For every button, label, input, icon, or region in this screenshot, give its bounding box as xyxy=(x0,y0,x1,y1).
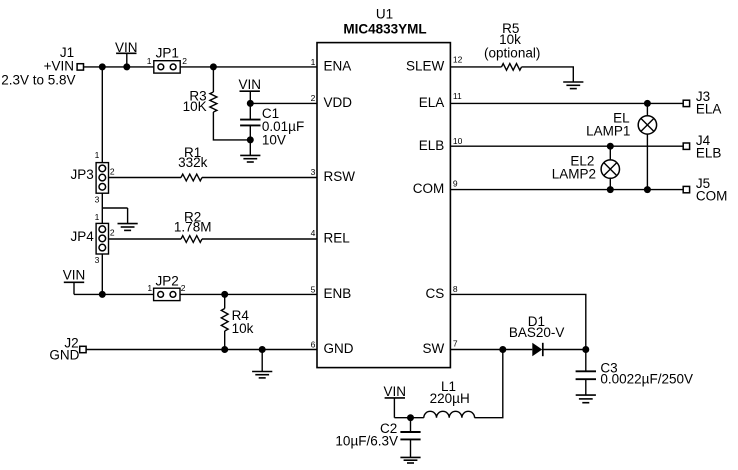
svg-text:3: 3 xyxy=(311,167,316,177)
svg-text:MIC4833YML: MIC4833YML xyxy=(343,21,426,36)
svg-text:ENB: ENB xyxy=(324,286,352,301)
wire C3 to ground xyxy=(585,379,587,395)
node junction dot R3 tap on ENA net xyxy=(210,63,217,70)
wire JP3 pin3 to ground tee and JP4 pin1 xyxy=(102,193,127,223)
wire C2 node down to capacitor xyxy=(410,418,412,432)
node junction dot R4 tap on ENB net xyxy=(221,291,228,298)
wire U1 pin8 CS over to C3 node xyxy=(450,294,585,349)
svg-text:CS: CS xyxy=(426,286,445,301)
U1 pin numbers right xyxy=(453,55,463,349)
wire U1 pin11 ELA to J3 xyxy=(450,102,682,104)
svg-text:SLEW: SLEW xyxy=(406,59,445,74)
node junction dot JP4-ENB xyxy=(99,291,106,298)
svg-text:RSW: RSW xyxy=(324,169,356,184)
JP4 pin numbers xyxy=(95,212,115,265)
svg-text:220µH: 220µH xyxy=(430,391,470,406)
ground under C3 xyxy=(576,395,596,403)
svg-text:1: 1 xyxy=(95,212,100,222)
svg-text:COM: COM xyxy=(413,181,445,196)
resistor R3 xyxy=(183,88,217,114)
ground for R5 xyxy=(563,82,583,89)
svg-text:+VIN: +VIN xyxy=(44,59,74,74)
ground under C2 xyxy=(400,457,420,463)
svg-text:JP4: JP4 xyxy=(71,229,95,244)
VIN power flag at L1 input xyxy=(384,384,407,418)
svg-text:3: 3 xyxy=(95,255,100,265)
svg-text:ELB: ELB xyxy=(419,138,445,153)
wire JP1 to U1 pin1 ENA xyxy=(180,66,317,68)
lamp EL2 LAMP2 xyxy=(552,153,620,181)
U1 pin names right xyxy=(406,59,445,357)
JP3 pin numbers xyxy=(95,150,115,204)
connector J1 +VIN terminal xyxy=(1,45,83,87)
svg-text:1: 1 xyxy=(147,283,152,293)
svg-text:6: 6 xyxy=(311,339,316,349)
wire lamp2 vertical ELB to COM xyxy=(609,146,611,189)
svg-text:5: 5 xyxy=(311,284,316,294)
jumper JP2 xyxy=(154,274,180,301)
U1 pin names left xyxy=(324,59,356,357)
node junction dot at x102 on ENA net xyxy=(99,63,106,70)
wire JP3 pin2 to R1 xyxy=(109,177,181,179)
svg-text:2: 2 xyxy=(181,283,186,293)
svg-text:VIN: VIN xyxy=(384,384,407,399)
connector J5 COM terminal xyxy=(683,176,727,204)
capacitor C1 xyxy=(240,106,304,147)
node junction dot C1-R3 ground wire xyxy=(247,136,254,143)
VIN power flag above VDD xyxy=(238,77,261,104)
wire U1 pin7 SW to diode xyxy=(450,349,532,351)
svg-text:10: 10 xyxy=(453,136,463,146)
svg-text:7: 7 xyxy=(453,339,458,349)
wire R4 bottom to GND net xyxy=(224,331,226,350)
svg-text:2: 2 xyxy=(110,228,115,238)
wire ENA dot down to R3 xyxy=(212,67,214,92)
svg-text:10µF/6.3V: 10µF/6.3V xyxy=(335,433,398,448)
svg-text:8: 8 xyxy=(453,284,458,294)
connector J2 GND terminal xyxy=(49,336,86,363)
wire C3 node down to capacitor xyxy=(585,350,587,372)
node junction dot lamp1-COM xyxy=(644,186,651,193)
node junction dot D1-C3-CS xyxy=(582,346,589,353)
wire U1 pin9 COM to J5 xyxy=(450,189,682,191)
node junction dot ground tap on GND net xyxy=(259,346,266,353)
svg-text:VIN: VIN xyxy=(238,77,261,92)
wire C1 to ground node xyxy=(249,125,251,155)
svg-text:U1: U1 xyxy=(376,7,393,22)
svg-text:ELA: ELA xyxy=(696,102,722,117)
wire J1 to JP1 (ENA net) xyxy=(84,66,154,68)
wire R2 to U1 pin4 REL xyxy=(202,238,317,240)
wire C2 to ground xyxy=(410,439,412,457)
connector J3 ELA terminal xyxy=(683,89,721,117)
svg-text:10V: 10V xyxy=(262,132,286,147)
wire J2 to U1 pin6 GND xyxy=(87,349,318,351)
svg-text:ELA: ELA xyxy=(419,95,445,110)
wire ENB dot down to R4 xyxy=(224,294,226,308)
U1 pin numbers left xyxy=(311,57,316,349)
svg-text:BAS20-V: BAS20-V xyxy=(509,325,565,340)
svg-text:COM: COM xyxy=(696,189,728,204)
wire JP2 to U1 pin5 ENB xyxy=(180,293,317,295)
node junction dot lamp2-COM xyxy=(607,186,614,193)
ground under C1 xyxy=(240,155,260,162)
ground near JP3 pin3 xyxy=(118,224,138,231)
svg-text:11: 11 xyxy=(453,91,462,101)
svg-text:2: 2 xyxy=(182,56,187,66)
node junction dot VDD net xyxy=(247,100,254,107)
VIN power flag left of ENB net xyxy=(63,268,86,295)
JP2 pin numbers xyxy=(147,283,185,293)
wire R3 bottom to C1 bottom node xyxy=(213,112,250,140)
jumper JP4 xyxy=(71,223,109,254)
svg-text:(optional): (optional) xyxy=(484,46,540,61)
svg-text:GND: GND xyxy=(324,341,354,356)
wire U1 pin12 SLEW to R5 xyxy=(450,66,501,68)
svg-text:1.78M: 1.78M xyxy=(174,219,212,234)
node junction dot lamp2 on ELB xyxy=(607,143,614,150)
node junction dot lamp1 on ELA xyxy=(644,100,651,107)
svg-text:LAMP2: LAMP2 xyxy=(552,167,596,182)
svg-text:4: 4 xyxy=(311,228,316,238)
svg-text:2: 2 xyxy=(110,167,115,177)
node junction dot SW-L1 xyxy=(499,346,506,353)
svg-text:ELB: ELB xyxy=(696,145,722,160)
capacitor C2 xyxy=(335,421,420,448)
svg-text:332k: 332k xyxy=(178,155,208,170)
svg-text:1: 1 xyxy=(147,56,152,66)
resistor R4 xyxy=(221,308,253,336)
svg-text:ENA: ENA xyxy=(324,59,352,74)
node junction dot C2 tap xyxy=(407,414,414,421)
wire diode cathode to C3 node xyxy=(543,349,586,351)
inductor L1 xyxy=(424,379,475,418)
svg-text:SW: SW xyxy=(423,341,445,356)
resistor R1 xyxy=(178,145,208,181)
wire JP4 pin3 down to ENB net xyxy=(101,254,103,294)
wire VIN to JP2 (ENB net) xyxy=(74,293,154,295)
svg-text:12: 12 xyxy=(453,55,463,65)
svg-text:2: 2 xyxy=(311,93,316,103)
resistor R2 xyxy=(174,210,212,243)
svg-text:JP2: JP2 xyxy=(155,274,178,289)
wire GND net down to ground xyxy=(261,350,263,372)
svg-text:REL: REL xyxy=(324,231,351,246)
resistor R5 xyxy=(484,21,540,70)
svg-text:GND: GND xyxy=(49,348,79,363)
svg-text:1: 1 xyxy=(311,57,316,67)
wire U1 pin10 ELB to J4 xyxy=(450,145,682,147)
svg-text:VIN: VIN xyxy=(63,268,86,283)
svg-text:10k: 10k xyxy=(232,321,254,336)
wire L1 to VIN stub xyxy=(394,417,423,419)
svg-text:1: 1 xyxy=(95,150,100,160)
jumper JP3 xyxy=(71,163,109,194)
svg-text:2.3V to 5.8V: 2.3V to 5.8V xyxy=(1,72,75,87)
svg-text:9: 9 xyxy=(453,179,458,189)
svg-text:JP3: JP3 xyxy=(71,167,94,182)
svg-text:3: 3 xyxy=(95,194,100,204)
svg-text:VDD: VDD xyxy=(324,95,353,110)
connector J4 ELB terminal xyxy=(683,133,721,161)
wire VDD dot to U1 pin2 VDD xyxy=(250,102,317,104)
wire lamp1 vertical ELA to COM xyxy=(646,103,648,189)
capacitor C3 xyxy=(576,360,693,386)
JP1 pin numbers xyxy=(147,56,188,66)
op-amp U1 MIC4833YML IC body xyxy=(317,7,450,368)
jumper JP1 xyxy=(154,46,180,73)
lamp EL LAMP1 xyxy=(586,111,656,139)
wire SW dot down to L1 xyxy=(475,350,503,418)
diode D1 BAS20-V xyxy=(509,314,565,356)
node junction dot VIN flag on ENA net xyxy=(123,63,130,70)
wire JP4 pin2 to R2 xyxy=(109,238,181,240)
svg-text:0.0022µF/250V: 0.0022µF/250V xyxy=(600,371,693,386)
node junction dot R4-GND xyxy=(221,346,228,353)
svg-text:LAMP1: LAMP1 xyxy=(586,123,630,138)
wire VDD dot down to C1 xyxy=(249,103,251,119)
svg-text:JP1: JP1 xyxy=(156,46,179,61)
VIN power flag above ENA net xyxy=(115,40,138,67)
svg-text:10K: 10K xyxy=(183,99,207,114)
wire R1 to U1 pin3 RSW xyxy=(202,177,317,179)
wire ENA dot down to JP3 pin1 xyxy=(101,67,103,163)
ground on GND net xyxy=(252,372,272,378)
wire R5 to ground stub xyxy=(522,67,574,82)
